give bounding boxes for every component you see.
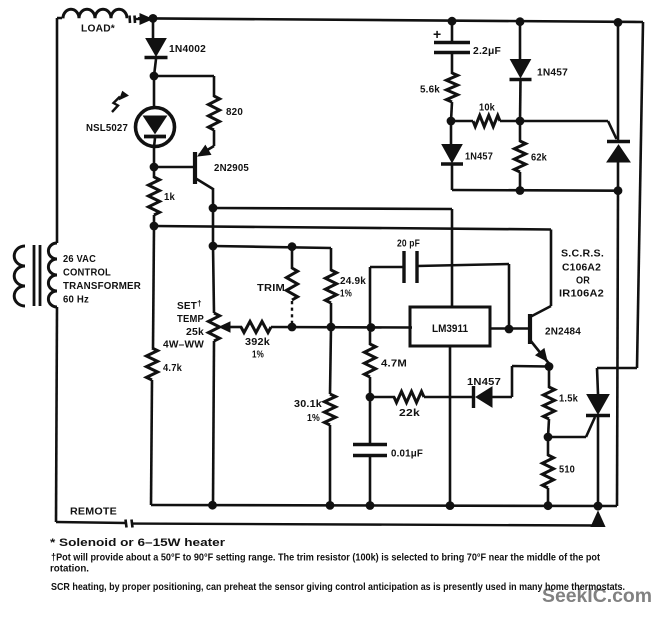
svg-text:24.9k: 24.9k — [340, 276, 366, 287]
svg-text:10k: 10k — [479, 103, 495, 114]
svg-text:S.C.R.S.: S.C.R.S. — [561, 249, 604, 260]
svg-text:2.2μF: 2.2μF — [473, 46, 501, 57]
svg-text:4.7M: 4.7M — [381, 359, 407, 370]
svg-text:60 Hz: 60 Hz — [63, 295, 89, 306]
svg-text:1N457: 1N457 — [467, 377, 501, 388]
svg-text:* Solenoid or 6–15W heater: * Solenoid or 6–15W heater — [50, 537, 226, 549]
svg-text:1N4002: 1N4002 — [169, 44, 206, 55]
svg-text:62k: 62k — [531, 153, 547, 164]
svg-text:2N2484: 2N2484 — [545, 327, 581, 338]
svg-text:22k: 22k — [399, 408, 420, 419]
svg-text:1%: 1% — [252, 350, 264, 361]
svg-text:392k: 392k — [245, 337, 270, 348]
svg-text:SCR heating, by proper positio: SCR heating, by proper positioning, can … — [51, 582, 625, 593]
svg-text:4W–WW: 4W–WW — [163, 340, 204, 351]
svg-text:20 pF: 20 pF — [397, 239, 420, 250]
svg-text:LM3911: LM3911 — [432, 323, 468, 335]
svg-text:1k: 1k — [164, 192, 175, 203]
svg-text:NSL5027: NSL5027 — [86, 123, 128, 134]
svg-text:2N2905: 2N2905 — [214, 163, 249, 174]
svg-text:†Pot will provide about a 50°F: †Pot will provide about a 50°F to 90°F s… — [51, 553, 601, 564]
svg-text:TRANSFORMER: TRANSFORMER — [63, 281, 142, 292]
svg-text:30.1k: 30.1k — [294, 399, 322, 410]
svg-text:1N457: 1N457 — [465, 152, 493, 163]
svg-text:820: 820 — [226, 107, 243, 118]
svg-text:TRIM: TRIM — [257, 283, 285, 294]
svg-text:5.6k: 5.6k — [420, 85, 440, 96]
svg-text:0.01μF: 0.01μF — [391, 449, 423, 460]
svg-text:25k: 25k — [186, 327, 204, 338]
svg-text:LOAD*: LOAD* — [81, 24, 115, 35]
svg-text:+: + — [433, 26, 441, 42]
svg-text:rotation.: rotation. — [50, 564, 89, 575]
svg-text:26 VAC: 26 VAC — [63, 254, 96, 265]
svg-text:1N457: 1N457 — [537, 68, 568, 79]
svg-text:4.7k: 4.7k — [163, 363, 182, 374]
svg-text:TEMP: TEMP — [177, 314, 204, 325]
svg-text:1.5k: 1.5k — [559, 394, 578, 405]
svg-text:REMOTE: REMOTE — [70, 506, 117, 518]
svg-text:CONTROL: CONTROL — [63, 268, 111, 279]
svg-text:OR: OR — [576, 276, 591, 287]
svg-text:C106A2: C106A2 — [562, 263, 601, 274]
svg-text:1%: 1% — [307, 413, 320, 424]
svg-text:IR106A2: IR106A2 — [559, 289, 604, 300]
svg-text:1%: 1% — [340, 289, 352, 300]
svg-text:510: 510 — [559, 465, 575, 476]
